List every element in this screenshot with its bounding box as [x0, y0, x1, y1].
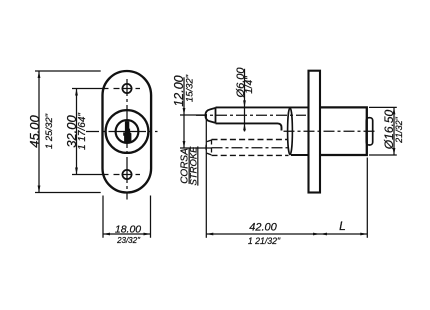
dim dia6 arrows: [243, 100, 246, 130]
retracted pin top edge (dashed): [212, 139, 288, 141]
plunger pin bottom edge with fillet into housing: [216, 123, 282, 130]
svg-text:45.00: 45.00: [27, 114, 42, 147]
dim 42.00 line: [206, 233, 320, 235]
dim L arrows: [320, 233, 367, 236]
plunger pin top edge (continues over housing to flange): [216, 106, 309, 108]
retracted pin bottom edge (dashed): [212, 154, 289, 156]
svg-text:15/32": 15/32": [184, 74, 195, 102]
cylinder face circle: [106, 110, 149, 153]
svg-text:1/4": 1/4": [244, 76, 255, 94]
plug circle: [116, 120, 139, 143]
dim 45.00 line: [38, 71, 40, 193]
lock face plate (stadium outline): [103, 71, 152, 193]
dim 18.00 arrows: [103, 233, 151, 236]
screw hole bottom: [122, 170, 131, 179]
horizontal centerline front view: [86, 131, 158, 133]
pin centerline: [196, 114, 306, 116]
dim dia16.5 arrows: [393, 107, 396, 155]
svg-text:21/32": 21/32": [394, 116, 404, 144]
svg-text:1 21/32": 1 21/32": [248, 236, 281, 246]
dim 45.00 arrows: [38, 71, 41, 193]
dim dia16.5 line: [393, 107, 395, 155]
dim 32.00 arrows: [75, 89, 78, 175]
top hole center mark: [114, 88, 141, 90]
dim L line: [320, 233, 367, 235]
svg-text:18.00: 18.00: [115, 223, 141, 235]
dim L right extension line: [366, 158, 368, 238]
svg-text:1 25/32": 1 25/32": [44, 113, 55, 149]
screw hole top: [122, 84, 131, 93]
rear tab: [366, 118, 372, 145]
keyhole: [123, 121, 131, 142]
pin tip cap: [205, 107, 215, 123]
dim dia6 line: [244, 69, 246, 132]
svg-text:STROKE: STROKE: [188, 146, 199, 186]
dim 32.00 extension lines: [72, 89, 109, 175]
svg-text:42.00: 42.00: [249, 222, 277, 234]
dim dia16.5 extension lines: [369, 107, 397, 155]
dim 32.00 line: [76, 89, 78, 175]
svg-text:23/32": 23/32": [116, 236, 141, 245]
svg-text:1 17/64": 1 17/64": [77, 113, 88, 150]
dim 45.00 extension lines: [35, 71, 101, 193]
bottom hole center mark: [114, 174, 141, 176]
dim 18.00 extension lines: [103, 196, 151, 238]
flange plate: [309, 71, 321, 193]
ext line from pin tip down (42.00 left): [205, 114, 207, 238]
retracted pin centerline: [212, 147, 289, 149]
retracted pin tip cap (dashed): [206, 140, 212, 156]
vertical centerline front view: [126, 79, 128, 200]
dim 18.00 line: [103, 233, 151, 235]
stroke dim arrows: [183, 108, 186, 148]
stroke dim extension lines: [180, 115, 211, 148]
svg-text:L: L: [339, 219, 346, 233]
body centerline: [284, 130, 378, 132]
cylinder housing curved front face (narrow ellipse): [288, 108, 293, 155]
dim 42.00 arrows: [206, 233, 320, 236]
stroke dim line: [183, 77, 185, 148]
lock body: [320, 107, 367, 155]
cylinder housing bottom edge: [291, 154, 309, 156]
